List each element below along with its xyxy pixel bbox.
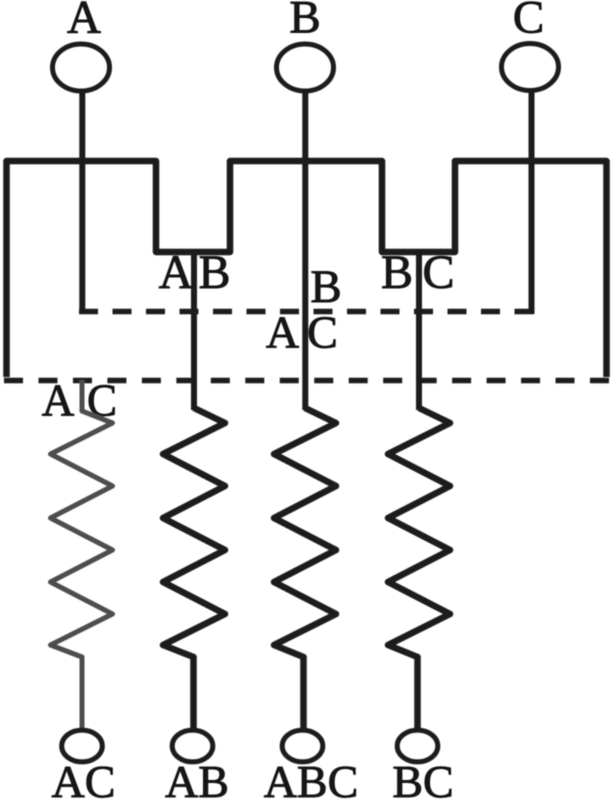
svg-text:C: C <box>513 0 544 44</box>
svg-text:A: A <box>67 0 101 44</box>
wire from dip 2 (node B C) down to resistor BC <box>416 249 422 410</box>
label C (top terminal) <box>513 0 544 44</box>
label AB (bottom terminal) <box>165 756 229 805</box>
label A C (below dashed wire 1) <box>266 307 338 358</box>
wire from terminal C down to dashed node AC line <box>529 92 535 314</box>
terminal AB circle <box>172 730 213 762</box>
label BC (bottom terminal) <box>392 756 453 805</box>
terminal ABC circle <box>282 730 323 762</box>
svg-text:A: A <box>159 246 194 299</box>
svg-text:B: B <box>381 246 413 299</box>
svg-text:ABC: ABC <box>264 756 359 800</box>
svg-text:BC: BC <box>392 756 453 800</box>
svg-text:AB: AB <box>165 756 229 800</box>
label A C (below dashed wire 2, left) <box>42 376 117 426</box>
wire from terminal B down to resistor ABC <box>302 92 308 410</box>
resistor ABC (zigzag) <box>274 408 336 728</box>
wire from dip 1 (node A B) down to resistor AB <box>191 249 197 410</box>
label B (top terminal) <box>289 0 320 44</box>
svg-text:A: A <box>266 307 299 358</box>
label B C (node at dip 2) <box>381 246 455 299</box>
label A B (node at dip 1) <box>159 246 231 299</box>
svg-text:C: C <box>307 307 338 358</box>
label B (wire B crossing dashed line) <box>310 261 341 313</box>
terminal B circle <box>277 44 334 91</box>
svg-text:B: B <box>310 261 341 313</box>
label AC (bottom terminal) <box>52 756 116 805</box>
svg-text:B: B <box>289 0 320 44</box>
wire from terminal A down to dashed node AC line <box>79 92 85 314</box>
svg-text:B: B <box>198 246 230 299</box>
terminal A circle <box>53 44 110 91</box>
terminal AC circle <box>62 730 103 762</box>
resistor AB (zigzag) <box>163 408 225 728</box>
resistor AC (gray zigzag) <box>51 380 113 728</box>
terminal C circle <box>502 44 559 91</box>
svg-text:C: C <box>422 246 454 299</box>
label A (top terminal) <box>67 0 101 44</box>
dashed wire 2 (lower node line) <box>4 378 609 384</box>
svg-text:A: A <box>42 376 75 426</box>
terminal BC circle <box>397 730 438 762</box>
dashed wire 1 (node A C between terminals A and C) <box>79 309 534 315</box>
svg-text:AC: AC <box>52 756 116 800</box>
solid bus wire with two dips (cam follower bar) <box>7 161 607 377</box>
label ABC (bottom terminal) <box>264 756 359 805</box>
resistor BC (zigzag) <box>388 408 450 728</box>
